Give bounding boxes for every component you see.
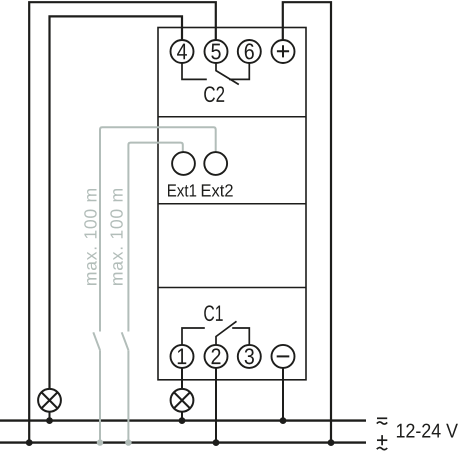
switch C2 fixed contact from terminal 4 xyxy=(182,63,207,79)
gray junction dot wire B on bus N xyxy=(125,439,131,445)
terminal + xyxy=(272,40,295,63)
gray push-button wire A from bus N to Ext2 xyxy=(93,127,215,442)
label max. 100 m (left) xyxy=(84,189,96,285)
pin label 6 xyxy=(245,43,254,59)
label C2 xyxy=(204,86,224,102)
label C1 xyxy=(204,305,223,321)
terminal 1 xyxy=(171,345,194,368)
junction dot: terminal 2 wire on bus N xyxy=(213,439,220,446)
label Ext1 xyxy=(168,184,196,196)
switch C1 fixed contact from terminal 3 xyxy=(232,328,249,345)
wire: lamp E1 down to bus L xyxy=(49,412,51,421)
device box xyxy=(158,28,306,380)
wire: outer left loop from bus N up over the top to terminal 5 xyxy=(29,2,216,442)
label max. 100 m (right) xyxy=(110,189,122,285)
junction dot: right wire on bus N xyxy=(328,439,335,446)
switch C2 fixed contact from terminal 6 xyxy=(229,63,249,79)
junction dot: minus wire on bus L xyxy=(280,417,287,424)
terminal minus xyxy=(272,345,295,368)
switch C1 blade from terminal 2 xyxy=(216,321,237,345)
lamp E1 xyxy=(38,389,61,412)
terminal 5 xyxy=(205,40,228,63)
wire: terminal minus down to bus L xyxy=(282,368,284,421)
terminal 4 xyxy=(171,40,194,63)
label Ext2 xyxy=(202,184,233,196)
pin label 2 xyxy=(212,348,221,364)
bus line N (lower supply rail) xyxy=(0,441,366,443)
bus line L (upper supply rail) xyxy=(0,419,366,421)
wire: terminal + up over the top right and down to bus N xyxy=(283,2,331,442)
switch C2 blade from terminal 5 xyxy=(216,63,239,85)
pin label 4 xyxy=(177,44,187,60)
pin label 1 xyxy=(178,349,186,365)
gray push-button wire B from bus N to Ext1 xyxy=(122,143,183,443)
wire: lamp E2 down to bus L xyxy=(181,412,183,421)
wire: inner loop from lamp E1 up over the top to terminal 4 xyxy=(50,16,183,389)
terminal 2 xyxy=(205,345,228,368)
supply polarity symbol at bus N: plus over tilde xyxy=(377,435,388,450)
input Ext2 xyxy=(204,152,227,175)
junction dot: lamp E1 on bus L xyxy=(46,417,53,424)
section divider 2 xyxy=(158,203,306,205)
wire: terminal 2 down to bus N xyxy=(215,368,217,443)
junction dot: outer left wire on bus N xyxy=(26,439,33,446)
terminal 3 xyxy=(238,345,261,368)
section divider 3 xyxy=(158,287,306,289)
lamp E2 xyxy=(171,389,194,412)
input Ext1 xyxy=(172,152,195,175)
section divider 1 xyxy=(158,116,306,118)
pin label 5 xyxy=(211,44,220,60)
terminal 6 xyxy=(238,40,261,63)
gray junction dot wire A on bus N xyxy=(97,439,103,445)
pin label 3 xyxy=(245,348,254,364)
supply polarity symbol at bus L: bar over tilde xyxy=(377,418,387,424)
junction dot: lamp E2 on bus L xyxy=(179,417,186,424)
wire: terminal 1 down to lamp E2 xyxy=(181,368,183,389)
switch C1 fixed contact from terminal 1 xyxy=(182,328,205,345)
label 12-24 V xyxy=(397,424,458,438)
